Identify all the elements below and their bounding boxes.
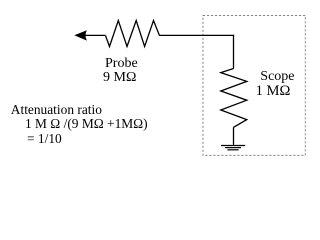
ground [221, 145, 245, 147]
wire (corner down into scope) [233, 35, 235, 69]
scope box (dashed enclosure) [203, 16, 305, 156]
wire (arrow tail to resistor) [85, 34, 106, 36]
label attenuation ratio line 2 [25, 117, 148, 131]
resistor Scope 1 MΩ (vertical zigzag) [221, 69, 247, 128]
label Scope [260, 70, 294, 84]
wire (resistor to ground) [233, 127, 235, 145]
wire (resistor to scope box corner) [160, 34, 235, 36]
arrow (probe tip, pointing left) [74, 30, 87, 40]
resistor Probe 9 MΩ (horizontal zigzag) [106, 21, 160, 47]
label attenuation ratio line 1 [11, 103, 102, 117]
label attenuation ratio line 3 [27, 132, 62, 146]
value 9 MΩ [103, 71, 136, 85]
value 1 MΩ [256, 84, 291, 98]
label Probe [105, 57, 138, 71]
